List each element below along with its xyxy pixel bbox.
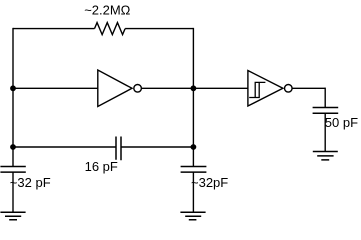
wire: bottom rail right of C2: [121, 146, 193, 148]
ground (output): [313, 152, 338, 160]
capacitor C4 plates: [313, 108, 339, 114]
wire: C1 to ground: [12, 172, 14, 212]
wire: inverter output to node B: [141, 87, 193, 89]
node D junction dot: [191, 144, 197, 150]
wire: right vertical rail: [192, 28, 194, 166]
wire: C4 to ground: [324, 113, 326, 151]
wire: node B to Schmitt input: [193, 87, 248, 89]
node C junction dot: [10, 144, 16, 150]
wire: bottom rail left of C2: [13, 146, 116, 148]
U2 hysteresis symbol: [249, 82, 265, 97]
capacitor C3 32pF plates (right): [181, 167, 207, 173]
resistor R1 zigzag: [95, 23, 126, 35]
node A junction dot: [10, 85, 16, 91]
wire: inverter input: [13, 87, 98, 89]
svg-text:16 pF: 16 pF: [85, 159, 118, 174]
op-amp U2 output bubble: [285, 85, 293, 93]
ground (right): [180, 212, 205, 220]
capacitor C2 16pF plates: [116, 137, 121, 161]
wire: left vertical rail: [12, 28, 14, 166]
op-amp U1 output bubble: [134, 85, 142, 93]
wire: C3 to ground: [192, 172, 194, 212]
capacitor C1 32pF plates (left): [0, 167, 25, 173]
wire: top feedback, left segment: [13, 28, 95, 30]
node B junction dot: [191, 85, 197, 91]
ground (left): [0, 212, 25, 220]
wire: Schmitt output horizontal: [292, 87, 325, 89]
svg-text:50 pF: 50 pF: [325, 115, 358, 130]
svg-text:~2.2MΩ: ~2.2MΩ: [84, 2, 130, 17]
op-amp U2 Schmitt trigger triangle: [248, 71, 283, 107]
wire: top feedback, right segment: [125, 28, 193, 30]
wire: output down to C4: [324, 88, 326, 108]
svg-text:~32 pF: ~32 pF: [10, 175, 51, 190]
svg-text:~32pF: ~32pF: [191, 175, 228, 190]
op-amp U1 inverter triangle: [98, 70, 132, 107]
